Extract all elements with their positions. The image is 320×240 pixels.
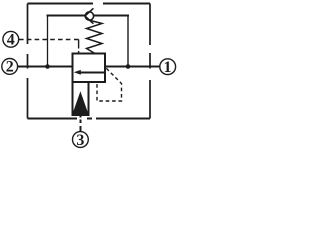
pilot ball circle: [85, 12, 93, 20]
port 3 circle: [73, 132, 89, 148]
envelope right line: [149, 4, 151, 119]
node B junction dot: [126, 64, 131, 69]
port 4 circle: [3, 31, 19, 47]
pilot dashed loop from port1 under spool: [97, 68, 122, 101]
main valve body box: [73, 54, 106, 83]
pilot line ball to node B: [94, 15, 129, 17]
port 4 dashed vent line: [19, 39, 72, 41]
envelope top line: [28, 3, 151, 5]
svg-text:2: 2: [6, 59, 14, 76]
pilot ball-seat relief V1: [85, 8, 94, 23]
port 1 circle: [160, 59, 176, 75]
svg-text:1: 1: [164, 59, 172, 76]
svg-text:3: 3: [76, 132, 84, 149]
lower chamber neck: [72, 82, 90, 115]
wire riser node A to pilot seat: [47, 15, 49, 66]
port 2 circle: [2, 59, 18, 75]
port 3 dash-dot line: [80, 116, 82, 132]
flow arrow shaft: [80, 71, 105, 73]
poppet seat triangle: [73, 93, 88, 114]
flow arrow head: [74, 70, 81, 75]
svg-text:4: 4: [7, 32, 15, 49]
node A junction dot: [45, 64, 50, 69]
spring: [87, 20, 103, 53]
port 4 vent line corner: [74, 40, 79, 54]
envelope bottom line: [28, 118, 151, 120]
port 2 line: [18, 66, 73, 68]
port 1 line: [105, 66, 160, 68]
envelope left line: [27, 4, 29, 119]
